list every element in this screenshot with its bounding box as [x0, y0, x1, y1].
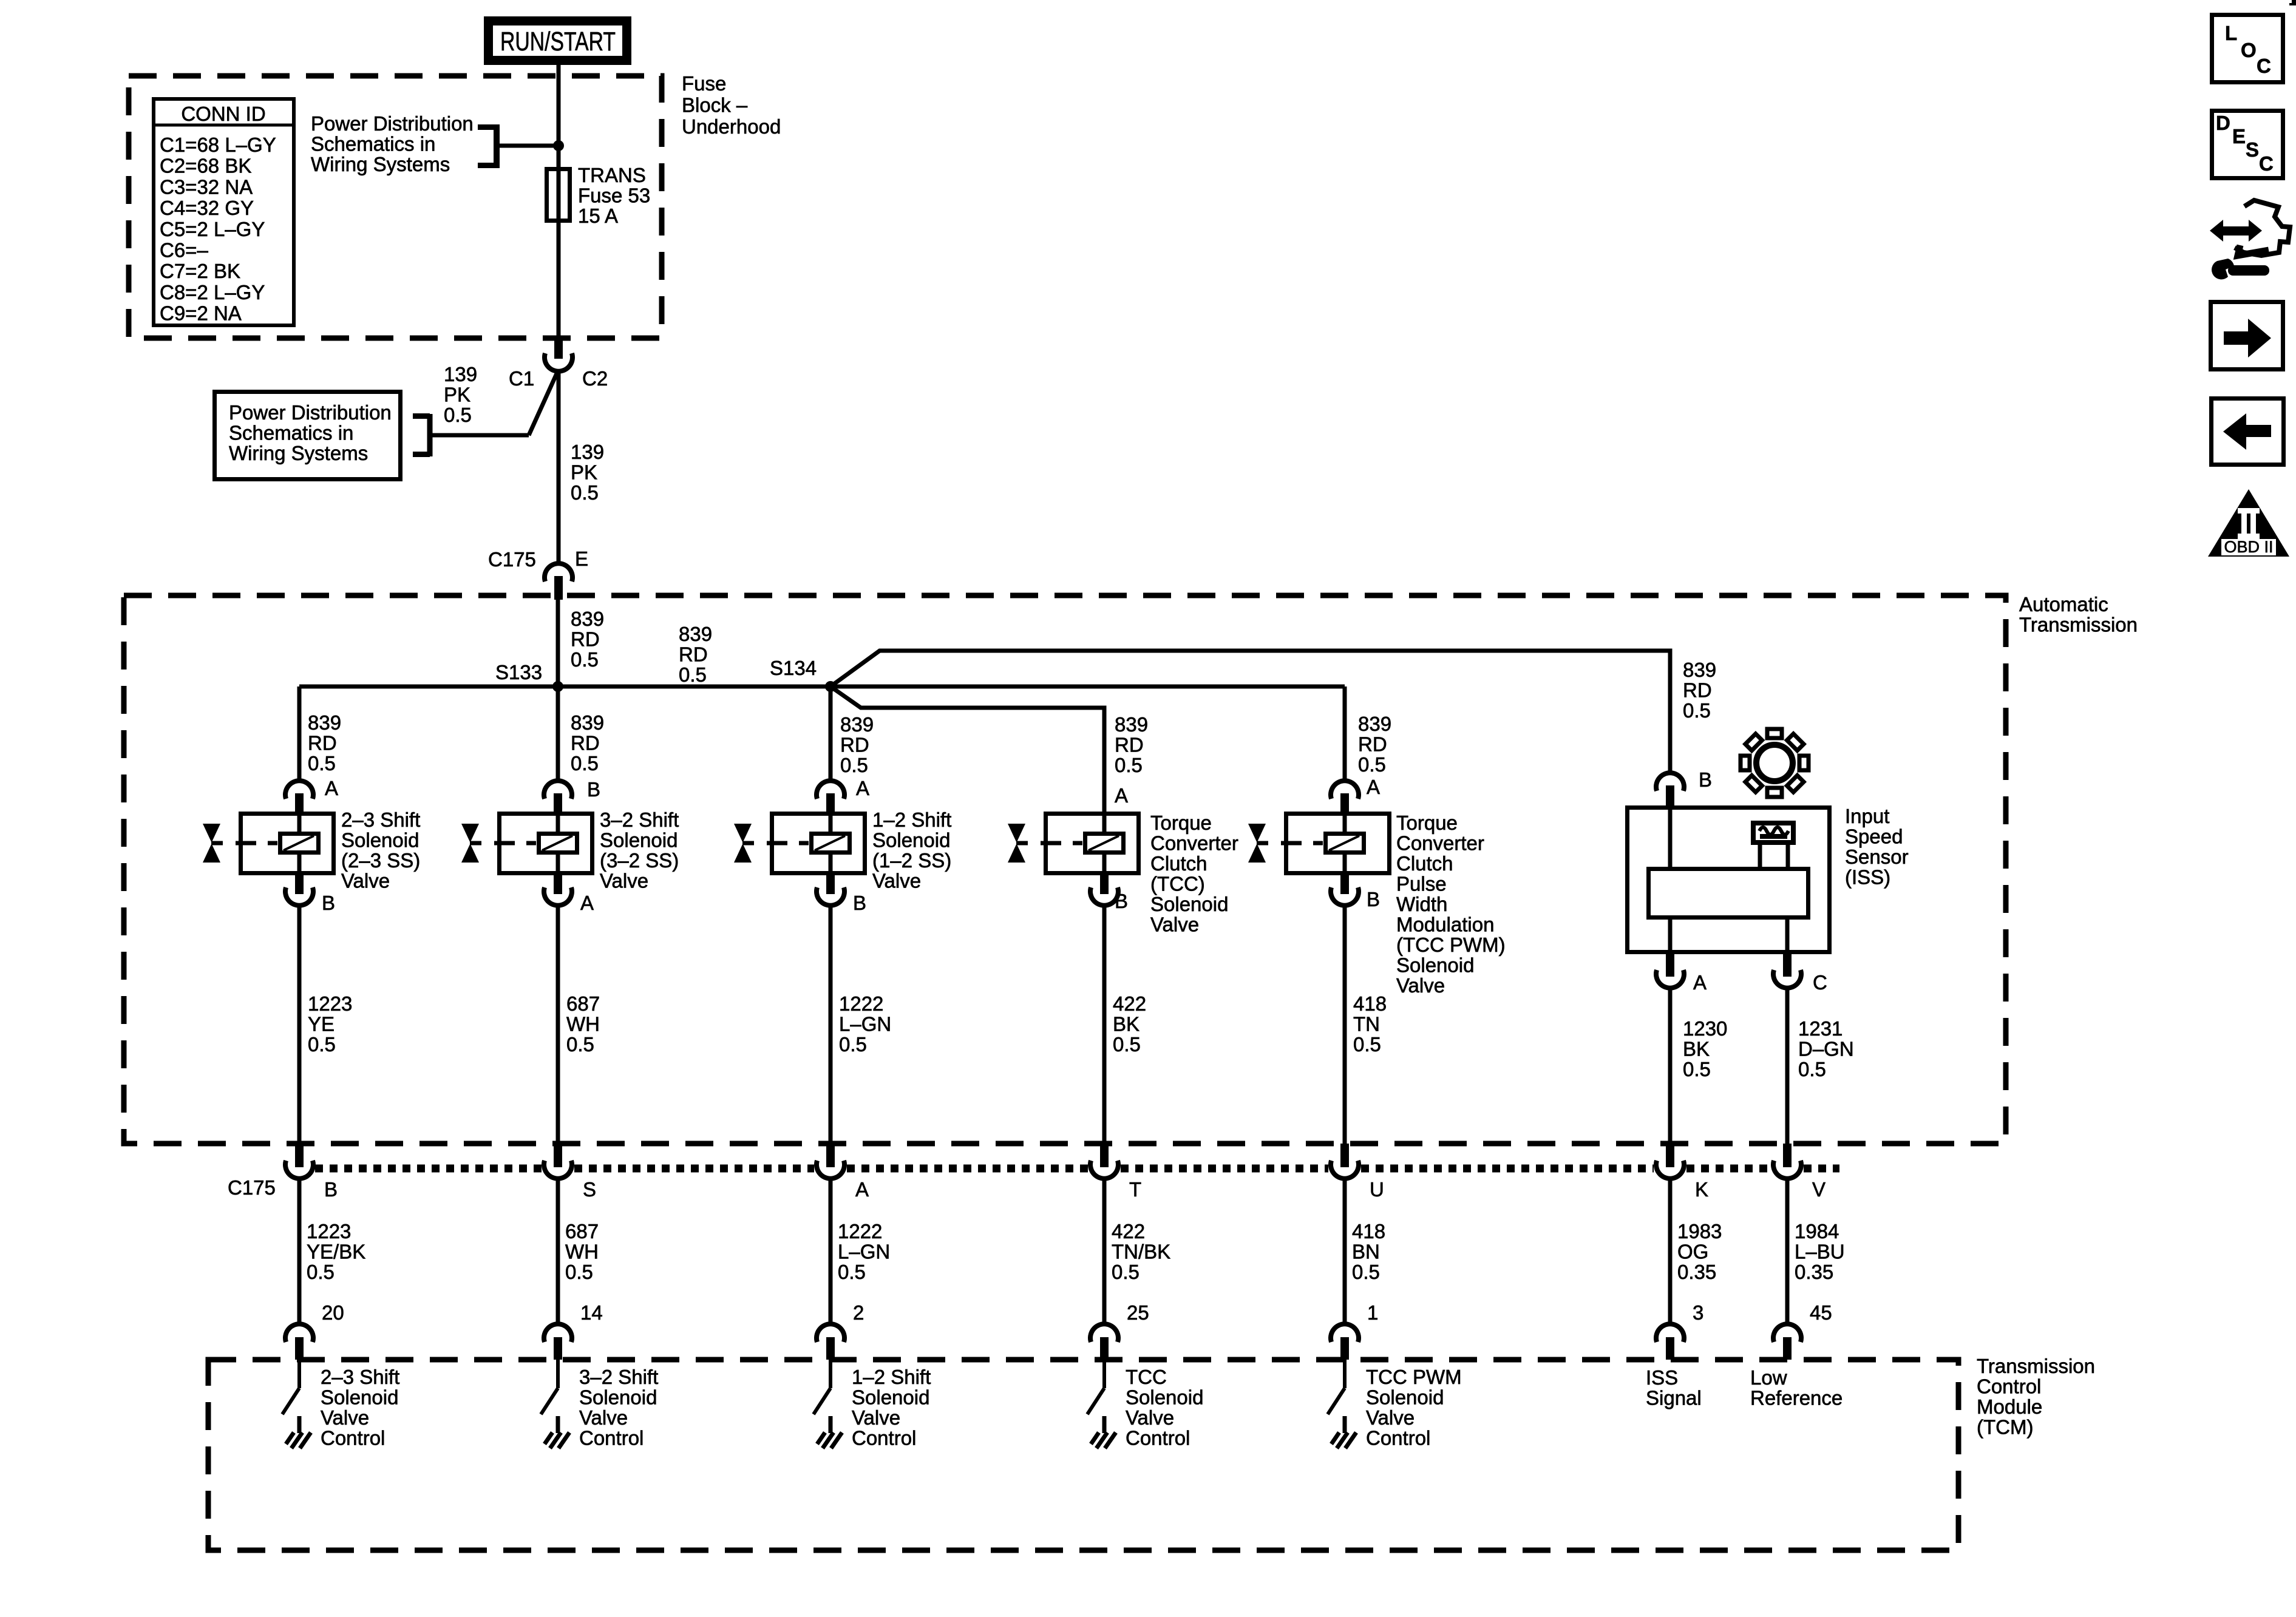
svg-text:0.5: 0.5	[571, 481, 599, 504]
svg-text:839: 839	[1683, 659, 1716, 681]
svg-text:D: D	[2216, 112, 2230, 134]
svg-text:Power Distribution: Power Distribution	[229, 401, 392, 424]
svg-text:Solenoid: Solenoid	[321, 1386, 398, 1409]
svg-text:Module: Module	[1977, 1395, 2042, 1418]
svg-text:0.5: 0.5	[1115, 754, 1143, 776]
wire solenoid3 to C175	[829, 905, 833, 1145]
svg-text:0.5: 0.5	[838, 1261, 866, 1283]
wire bracket to junction	[498, 144, 555, 148]
svg-text:422: 422	[1113, 992, 1146, 1015]
svg-text:A: A	[580, 892, 594, 914]
svg-text:S133: S133	[495, 661, 542, 683]
wire branch solenoid1	[297, 686, 302, 783]
svg-text:L–BU: L–BU	[1795, 1241, 1845, 1263]
connector C175 pin cup U	[1340, 1144, 1349, 1167]
TCM connector cup pin 2	[817, 1324, 844, 1342]
svg-text:WH: WH	[565, 1241, 599, 1263]
svg-text:(2–3 SS): (2–3 SS)	[341, 849, 420, 872]
wire branch solenoid5	[1343, 686, 1347, 783]
svg-text:1230: 1230	[1683, 1017, 1727, 1040]
svg-text:Control: Control	[1126, 1427, 1190, 1449]
svg-text:1983: 1983	[1677, 1220, 1722, 1242]
svg-text:20: 20	[322, 1301, 344, 1324]
svg-text:C6=–: C6=–	[160, 239, 208, 262]
svg-text:2–3 Shift: 2–3 Shift	[321, 1366, 399, 1388]
svg-text:0.5: 0.5	[840, 754, 868, 776]
svg-text:TN: TN	[1353, 1013, 1380, 1036]
svg-text:0.5: 0.5	[308, 752, 336, 775]
svg-text:Valve: Valve	[872, 870, 921, 892]
col4 valve actuation dashes	[1041, 841, 1061, 846]
svg-text:Transmission: Transmission	[2019, 614, 2138, 636]
svg-text:RD: RD	[571, 732, 600, 754]
ISS connector pin cup C	[1783, 953, 1792, 977]
svg-text:Solenoid: Solenoid	[852, 1386, 929, 1409]
ISS wire C internal	[1785, 920, 1790, 955]
svg-text:Converter: Converter	[1150, 832, 1238, 855]
svg-text:0.5: 0.5	[1112, 1261, 1140, 1283]
col5 solenoid coil element	[1326, 834, 1364, 853]
wire RUN/START to fuse	[557, 65, 561, 339]
svg-text:839: 839	[1115, 713, 1148, 736]
svg-text:YE/BK: YE/BK	[307, 1241, 365, 1263]
col1 solenoid coil wire top	[297, 812, 302, 834]
svg-text:RD: RD	[1115, 734, 1144, 756]
svg-text:0.5: 0.5	[1798, 1058, 1826, 1080]
svg-text:C9=2 NA: C9=2 NA	[160, 302, 242, 325]
gear icon	[1756, 745, 1793, 781]
connector C175 pin cup S	[554, 1144, 562, 1167]
svg-text:0.5: 0.5	[839, 1033, 867, 1056]
svg-text:Valve: Valve	[852, 1406, 900, 1429]
svg-text:839: 839	[1358, 713, 1391, 735]
svg-text:Width: Width	[1396, 893, 1447, 915]
ISS connector cup pin B	[1656, 773, 1684, 791]
svg-text:B: B	[1367, 888, 1380, 910]
svg-text:C7=2 BK: C7=2 BK	[160, 260, 240, 282]
svg-text:(ISS): (ISS)	[1845, 866, 1890, 889]
svg-text:0.5: 0.5	[1683, 1058, 1711, 1080]
svg-text:C1=68 L–GY: C1=68 L–GY	[160, 134, 276, 156]
svg-text:Valve: Valve	[1126, 1406, 1174, 1429]
svg-text:BK: BK	[1113, 1013, 1140, 1036]
svg-text:C175: C175	[488, 548, 536, 571]
svg-text:1984: 1984	[1795, 1220, 1839, 1242]
svg-text:14: 14	[580, 1301, 603, 1324]
page corner mark	[2292, 0, 2296, 5]
svg-text:0.5: 0.5	[565, 1261, 593, 1283]
bracket for power distribution reference 1	[494, 124, 500, 168]
col1 solenoid coil wire bottom	[297, 853, 302, 876]
svg-text:Solenoid: Solenoid	[872, 829, 950, 852]
svg-text:U: U	[1370, 1178, 1384, 1201]
col3 solenoid coil element	[812, 834, 850, 853]
svg-text:0.5: 0.5	[1358, 753, 1386, 776]
svg-text:WH: WH	[566, 1013, 600, 1036]
connector C175 pin cup T	[1100, 1144, 1109, 1167]
TCM driver switch col3	[829, 1360, 832, 1388]
svg-text:Low: Low	[1750, 1366, 1787, 1389]
junction node on feed wire	[553, 140, 564, 151]
svg-text:Block –: Block –	[682, 94, 748, 117]
svg-text:0.5: 0.5	[1113, 1033, 1141, 1056]
col3 solenoid connector cup pin A top	[817, 781, 844, 799]
svg-text:Schematics in: Schematics in	[311, 133, 435, 155]
svg-text:Solenoid: Solenoid	[341, 829, 419, 852]
svg-text:Reference: Reference	[1750, 1387, 1843, 1409]
svg-text:(TCC PWM): (TCC PWM)	[1396, 934, 1506, 956]
wire ISS C to C175	[1785, 988, 1790, 1145]
TCM connector cup pin 3	[1656, 1324, 1684, 1342]
CONN ID table	[154, 99, 294, 325]
svg-text:B: B	[587, 778, 600, 801]
svg-text:Valve: Valve	[1150, 914, 1199, 936]
svg-text:Solenoid: Solenoid	[1396, 954, 1474, 977]
col3 solenoid coil wire bottom	[829, 853, 833, 876]
wire V to TCM	[1785, 1178, 1790, 1324]
svg-text:ISS: ISS	[1646, 1366, 1678, 1389]
wire U to TCM	[1343, 1178, 1347, 1324]
col2 valve symbol	[461, 824, 479, 842]
svg-text:C8=2 L–GY: C8=2 L–GY	[160, 281, 265, 303]
svg-text:0.35: 0.35	[1677, 1261, 1716, 1283]
svg-text:C2=68 BK: C2=68 BK	[160, 155, 251, 177]
svg-text:S: S	[2246, 138, 2259, 161]
svg-text:A: A	[1115, 784, 1128, 807]
svg-text:TCC PWM: TCC PWM	[1366, 1366, 1462, 1388]
svg-text:A: A	[855, 1178, 869, 1201]
svg-text:Wiring Systems: Wiring Systems	[229, 442, 368, 464]
svg-text:(TCC): (TCC)	[1150, 873, 1205, 895]
svg-text:0.5: 0.5	[571, 648, 599, 671]
wire T to TCM	[1102, 1178, 1107, 1324]
svg-text:Control: Control	[1977, 1375, 2041, 1398]
col2 valve actuation dashes	[494, 841, 515, 846]
col5 solenoid case box	[1286, 814, 1390, 873]
svg-text:V: V	[1812, 1178, 1826, 1201]
svg-text:YE: YE	[308, 1013, 335, 1036]
svg-text:0.5: 0.5	[566, 1033, 594, 1056]
TCM connector cup pin 20	[285, 1324, 313, 1342]
col4 solenoid connector pin cup B bottom	[1100, 875, 1109, 894]
svg-text:RD: RD	[1358, 733, 1387, 756]
svg-text:Control: Control	[579, 1427, 644, 1449]
svg-text:45: 45	[1810, 1301, 1832, 1324]
svg-text:TCC: TCC	[1126, 1366, 1167, 1388]
svg-text:0.5: 0.5	[571, 752, 599, 775]
svg-text:Control: Control	[1366, 1427, 1430, 1449]
connector C1/C2 cup	[545, 353, 572, 371]
fuse TRANS Fuse 53 15A	[547, 169, 570, 221]
power feed RUN/START box	[489, 21, 627, 61]
svg-text:687: 687	[566, 992, 600, 1015]
col5 solenoid connector cup pin A top	[1331, 781, 1359, 799]
ground col2	[556, 1416, 560, 1433]
power distribution reference box 2	[215, 392, 401, 480]
svg-text:0.5: 0.5	[307, 1261, 335, 1283]
bracket for power distribution reference 2	[427, 414, 433, 456]
svg-text:1223: 1223	[308, 992, 352, 1015]
svg-text:Valve: Valve	[600, 870, 648, 892]
svg-text:0.35: 0.35	[1795, 1261, 1833, 1283]
wire S to TCM	[556, 1178, 560, 1324]
ground col3	[829, 1416, 833, 1433]
ISS pickup bar	[1649, 869, 1809, 918]
svg-text:RD: RD	[679, 643, 708, 666]
svg-text:Wiring Systems: Wiring Systems	[311, 153, 450, 175]
svg-text:Solenoid: Solenoid	[1366, 1386, 1444, 1409]
svg-text:2–3 Shift: 2–3 Shift	[341, 808, 420, 831]
col1 solenoid case box	[241, 814, 334, 873]
ISS connector pin cup A	[1666, 953, 1674, 977]
col3 valve actuation dashes	[767, 841, 787, 846]
svg-text:0.5: 0.5	[679, 663, 707, 686]
ISS sensor head	[1753, 823, 1793, 842]
svg-text:839: 839	[679, 623, 712, 645]
svg-text:L–GN: L–GN	[839, 1013, 891, 1036]
connector C175 pin cup B	[295, 1144, 304, 1167]
TCM driver switch col2	[556, 1360, 560, 1388]
icon back arrow box	[2212, 399, 2284, 465]
ground col5	[1343, 1416, 1347, 1433]
svg-text:D–GN: D–GN	[1798, 1038, 1854, 1060]
svg-text:BN: BN	[1352, 1241, 1380, 1263]
svg-text:Fuse 53: Fuse 53	[578, 185, 650, 207]
col1 valve symbol	[203, 824, 220, 842]
wire C2 down to C175	[557, 370, 561, 564]
svg-text:687: 687	[565, 1220, 599, 1242]
ISS case box	[1628, 808, 1830, 952]
svg-text:1–2 Shift: 1–2 Shift	[872, 808, 951, 831]
svg-text:TRANS: TRANS	[578, 164, 646, 186]
col2 solenoid coil wire bottom	[556, 853, 560, 876]
col4 solenoid coil element	[1085, 834, 1124, 853]
TCM driver switch col1	[297, 1360, 301, 1388]
automatic transmission dashed box	[124, 595, 2006, 1144]
TCM driver switch col5	[1343, 1360, 1347, 1388]
svg-text:L: L	[2225, 22, 2237, 44]
svg-text:Torque: Torque	[1150, 812, 1212, 834]
svg-text:OG: OG	[1677, 1241, 1708, 1263]
svg-text:Schematics in: Schematics in	[229, 422, 353, 444]
svg-text:839: 839	[571, 711, 604, 734]
svg-text:839: 839	[308, 711, 341, 734]
connector C175 dotted line	[315, 1165, 1839, 1173]
svg-text:PK: PK	[444, 384, 470, 406]
icon DESC box	[2212, 111, 2283, 178]
svg-text:1: 1	[1367, 1301, 1378, 1324]
col5 valve symbol	[1248, 824, 1266, 842]
svg-text:Torque: Torque	[1396, 812, 1458, 834]
wire B to TCM	[297, 1178, 302, 1324]
svg-text:C: C	[1813, 971, 1827, 994]
wire C1 branch to power distribution box	[432, 433, 529, 438]
splice S134	[825, 681, 836, 692]
wire solenoid1 to C175	[297, 905, 302, 1145]
svg-text:Modulation: Modulation	[1396, 914, 1494, 936]
svg-text:B: B	[1115, 890, 1128, 912]
svg-text:TN/BK: TN/BK	[1112, 1241, 1170, 1263]
svg-text:25: 25	[1127, 1301, 1149, 1324]
connector C1/C2 pin	[554, 338, 563, 359]
svg-text:418: 418	[1352, 1220, 1385, 1242]
svg-text:Valve: Valve	[321, 1406, 369, 1429]
svg-text:Transmission: Transmission	[1977, 1355, 2095, 1377]
svg-text:Control: Control	[852, 1427, 916, 1449]
svg-text:RD: RD	[1683, 679, 1712, 702]
col4 solenoid coil wire bottom	[1102, 853, 1107, 876]
wire trunk C175E to S133 to solenoid2	[556, 597, 560, 783]
svg-text:E: E	[575, 547, 588, 570]
col2 solenoid coil wire top	[556, 812, 560, 834]
icon connector repair symbol	[2210, 220, 2223, 242]
svg-text:0.5: 0.5	[1683, 699, 1711, 722]
svg-text:15 A: 15 A	[578, 205, 618, 227]
wire K to TCM	[1668, 1178, 1673, 1324]
svg-text:B: B	[324, 1178, 338, 1201]
splice S133	[552, 681, 563, 692]
svg-text:C3=32 NA: C3=32 NA	[160, 175, 253, 198]
svg-text:139: 139	[444, 363, 477, 385]
svg-text:Solenoid: Solenoid	[579, 1386, 657, 1409]
connector C175/E cup	[545, 563, 572, 581]
svg-text:RD: RD	[308, 732, 337, 754]
svg-text:0.5: 0.5	[308, 1033, 336, 1056]
TCM connector cup pin 1	[1331, 1324, 1359, 1342]
connector C175 pin cup V	[1783, 1144, 1792, 1167]
wire branch solenoid3	[829, 686, 833, 783]
svg-text:839: 839	[840, 713, 874, 736]
wire solenoid5 to C175	[1343, 905, 1347, 1145]
svg-text:C: C	[2257, 55, 2271, 77]
col4 solenoid case box	[1046, 814, 1139, 873]
col2 solenoid connector cup pin B top	[544, 781, 572, 799]
svg-text:OBD II: OBD II	[2224, 538, 2273, 556]
svg-text:C2: C2	[582, 367, 608, 390]
svg-text:A: A	[1693, 971, 1707, 994]
svg-text:Valve: Valve	[341, 870, 390, 892]
svg-text:1222: 1222	[839, 992, 883, 1015]
svg-text:Converter: Converter	[1396, 832, 1484, 855]
svg-text:3–2 Shift: 3–2 Shift	[579, 1366, 658, 1388]
svg-text:T: T	[1129, 1178, 1141, 1201]
svg-text:Input: Input	[1845, 805, 1889, 827]
wire branch TCC solenoid	[830, 686, 1104, 814]
svg-text:C4=32 GY: C4=32 GY	[160, 197, 254, 219]
svg-text:Solenoid: Solenoid	[1126, 1386, 1203, 1409]
svg-text:Sensor: Sensor	[1845, 846, 1909, 868]
ground col4	[1102, 1416, 1107, 1433]
svg-text:Pulse: Pulse	[1396, 873, 1447, 895]
ground col1	[297, 1416, 302, 1433]
svg-text:BK: BK	[1683, 1038, 1710, 1060]
svg-text:3–2 Shift: 3–2 Shift	[600, 808, 679, 831]
svg-text:2: 2	[853, 1301, 864, 1324]
TCM connector cup pin 25	[1090, 1324, 1118, 1342]
svg-text:E: E	[2232, 125, 2246, 147]
connector C175 pin cup A	[826, 1144, 835, 1167]
svg-text:1231: 1231	[1798, 1017, 1843, 1040]
svg-text:Signal: Signal	[1646, 1387, 1702, 1409]
svg-text:Fuse: Fuse	[682, 72, 726, 95]
svg-text:PK: PK	[571, 461, 597, 484]
svg-text:139: 139	[571, 441, 604, 463]
svg-text:CONN ID: CONN ID	[181, 103, 265, 125]
col1 solenoid coil element	[280, 834, 319, 853]
svg-text:C: C	[2259, 152, 2274, 175]
svg-text:RD: RD	[571, 628, 600, 651]
svg-text:1223: 1223	[307, 1220, 351, 1242]
svg-text:RD: RD	[840, 734, 869, 756]
svg-text:Automatic: Automatic	[2019, 593, 2108, 615]
svg-text:C175: C175	[228, 1176, 276, 1199]
svg-text:Valve: Valve	[579, 1406, 628, 1429]
svg-text:S134: S134	[770, 657, 817, 679]
svg-text:Solenoid: Solenoid	[600, 829, 678, 852]
col2 solenoid connector pin cup A bottom	[554, 875, 562, 894]
ISS wire A internal	[1668, 920, 1673, 955]
svg-text:Power Distribution: Power Distribution	[311, 112, 474, 135]
svg-text:C1: C1	[509, 367, 534, 390]
svg-text:0.5: 0.5	[444, 404, 472, 426]
svg-text:418: 418	[1353, 992, 1387, 1015]
TCM connector cup pin 14	[544, 1324, 572, 1342]
connector C175/E pin	[554, 576, 563, 600]
svg-text:B: B	[1699, 768, 1712, 791]
svg-text:Underhood: Underhood	[682, 115, 781, 138]
svg-text:RUN/START: RUN/START	[500, 27, 616, 56]
TCM connector cup pin 45	[1773, 1324, 1801, 1342]
col3 solenoid coil wire top	[829, 812, 833, 834]
svg-text:0.5: 0.5	[1352, 1261, 1380, 1283]
col4 valve symbol	[1008, 824, 1025, 842]
TCM driver switch col4	[1102, 1360, 1106, 1388]
svg-text:Speed: Speed	[1845, 825, 1903, 848]
col5 solenoid coil wire top	[1343, 812, 1347, 834]
col3 solenoid case box	[772, 814, 865, 873]
wire A to TCM	[829, 1178, 833, 1324]
icon forward arrow box	[2211, 302, 2283, 370]
icon OBD II	[2208, 489, 2289, 557]
svg-text:Solenoid: Solenoid	[1150, 893, 1228, 915]
svg-text:S: S	[583, 1178, 596, 1201]
col1 valve actuation dashes	[236, 841, 256, 846]
svg-text:A: A	[1367, 776, 1380, 798]
svg-text:0.5: 0.5	[1353, 1033, 1381, 1056]
wire ISS A to C175	[1668, 988, 1673, 1145]
col4 solenoid coil wire top	[1102, 812, 1107, 834]
svg-text:Valve: Valve	[1366, 1406, 1415, 1429]
col5 solenoid connector pin cup B bottom	[1340, 875, 1349, 894]
svg-text:1222: 1222	[838, 1220, 882, 1242]
svg-text:3: 3	[1693, 1301, 1703, 1324]
connector C175 pin cup K	[1666, 1144, 1674, 1167]
svg-text:O: O	[2241, 39, 2257, 61]
svg-text:Valve: Valve	[1396, 974, 1445, 997]
svg-text:B: B	[853, 892, 866, 914]
svg-text:(TCM): (TCM)	[1977, 1416, 2033, 1439]
svg-text:(1–2 SS): (1–2 SS)	[872, 849, 951, 872]
col2 solenoid coil element	[539, 834, 577, 853]
col1 solenoid connector cup pin A top	[285, 781, 313, 799]
col3 valve symbol	[734, 824, 752, 842]
col3 solenoid connector pin cup B bottom	[826, 875, 835, 894]
svg-text:K: K	[1695, 1178, 1708, 1201]
svg-text:C5=2 L–GY: C5=2 L–GY	[160, 218, 265, 240]
svg-text:A: A	[325, 777, 338, 799]
svg-text:(3–2 SS): (3–2 SS)	[600, 849, 679, 872]
icon LOC box	[2212, 15, 2283, 83]
